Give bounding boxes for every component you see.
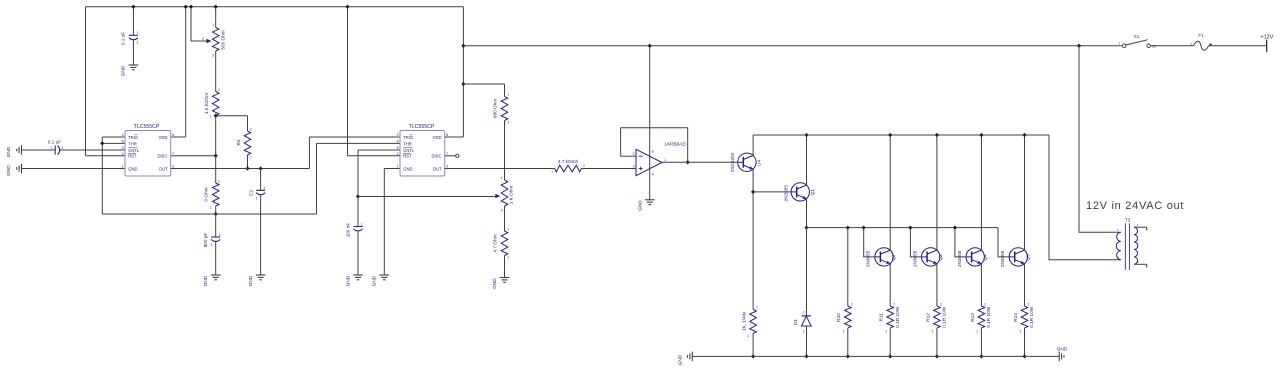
- svg-text:F1: F1: [1198, 33, 1204, 39]
- resistor R14 0.1R 10W: [1021, 306, 1028, 328]
- svg-text:GND: GND: [6, 146, 11, 157]
- svg-text:GND: GND: [678, 354, 683, 365]
- wire Q3 emitter fall: [936, 264, 938, 307]
- node Q5 collector on rail: [1022, 133, 1026, 137]
- pin tick secondary bottom: [1146, 264, 1148, 267]
- svg-text:2: 2: [62, 146, 64, 150]
- ground U1 GND pin: [21, 164, 23, 174]
- svg-text:DISC: DISC: [431, 154, 441, 159]
- capacitor 800 pF: [211, 236, 220, 238]
- pot wiper arrow: [207, 39, 212, 44]
- svg-text:1: 1: [397, 165, 399, 169]
- svg-text:3: 3: [212, 54, 214, 58]
- svg-text:2: 2: [508, 121, 510, 125]
- resistor R4: [244, 131, 251, 155]
- transformer T2 primary winding: [1116, 232, 1121, 259]
- svg-text:2: 2: [984, 303, 986, 307]
- capacitor 100 nF: [354, 226, 363, 228]
- svg-text:1: 1: [250, 156, 252, 160]
- wire base hook Q3: [910, 228, 921, 257]
- svg-text:1: 1: [976, 330, 978, 334]
- svg-text:1: 1: [137, 31, 139, 35]
- svg-text:2: 2: [137, 41, 139, 45]
- wire DISC to 0 Ohm: [215, 156, 217, 183]
- op-amp 555 timer U1 TLC555CP: [125, 131, 171, 177]
- wire primary bottom feed: [1049, 135, 1121, 260]
- capacitor C2: [256, 189, 265, 191]
- svg-text:1 K Ohm: 1 K Ohm: [509, 186, 514, 205]
- wire feedback - input: [621, 155, 636, 157]
- svg-text:2: 2: [264, 186, 266, 190]
- svg-text:0.1R 10W: 0.1R 10W: [986, 306, 991, 327]
- wire OUT U1 riser to TRIG U2: [308, 137, 310, 169]
- svg-text:2N3055: 2N3055: [957, 250, 962, 267]
- wire OUT U2: [445, 168, 555, 170]
- wire R10 bottom lead: [847, 328, 849, 356]
- svg-text:2: 2: [756, 306, 758, 310]
- wire 100nF lead: [357, 197, 359, 227]
- svg-text:2N3055: 2N3055: [1000, 250, 1005, 267]
- wire GND U2 riser: [383, 169, 385, 276]
- svg-text:680 Ohm: 680 Ohm: [493, 99, 498, 118]
- wire VDD U2: [445, 136, 464, 138]
- svg-text:1: 1: [1190, 42, 1192, 46]
- wire Q1 collector riser: [806, 135, 808, 185]
- wire node to 800pF: [215, 214, 217, 237]
- svg-text:GND: GND: [346, 275, 351, 286]
- svg-text:1: 1: [1119, 42, 1121, 46]
- svg-text:+12V: +12V: [1260, 34, 1273, 40]
- wire OUT U1: [171, 168, 310, 170]
- svg-text:R4: R4: [236, 139, 241, 145]
- pin tick secondary top: [1146, 227, 1148, 230]
- wire 680 to pot: [504, 121, 506, 181]
- svg-text:2: 2: [218, 88, 220, 92]
- wire to op-amp + input: [582, 168, 637, 170]
- svg-text:2: 2: [202, 37, 204, 41]
- diode D1: [802, 315, 811, 317]
- svg-text:2: 2: [633, 152, 635, 156]
- wire THR U2: [317, 142, 401, 144]
- svg-text:3: 3: [501, 209, 503, 213]
- wire timing rail: [102, 213, 316, 215]
- node Q1 base junction: [751, 190, 755, 194]
- svg-text:2: 2: [219, 233, 221, 237]
- wire pot to 1.5K: [215, 51, 217, 92]
- node R13 bottom: [979, 354, 983, 358]
- svg-text:2N3055: 2N3055: [912, 250, 917, 267]
- wire secondary top lead: [1134, 226, 1147, 228]
- resistor 680 Ohm: [501, 96, 508, 120]
- transistor Q2 2N3055: [875, 248, 893, 266]
- node THR junction: [100, 141, 104, 145]
- wire left outline down to RST U1: [85, 7, 87, 156]
- op-amp 555 timer U2 TLC555CP: [400, 131, 445, 177]
- wire feedback right riser: [687, 128, 689, 163]
- svg-text:U4: U4: [757, 160, 762, 166]
- resistor 1K 1/4W: [750, 309, 757, 333]
- svg-text:6: 6: [122, 140, 124, 144]
- svg-text:TLC555CP: TLC555CP: [409, 124, 435, 130]
- svg-text:1: 1: [50, 146, 52, 150]
- ground op-amp: [645, 199, 655, 201]
- wire feedback top: [621, 127, 688, 129]
- node Q2 collector on rail: [888, 133, 892, 137]
- wire 680 branch: [463, 83, 504, 85]
- transformer T2 core: [1124, 223, 1126, 270]
- svg-text:2: 2: [583, 164, 585, 168]
- node R10 bottom: [846, 354, 850, 358]
- wire base hook Q2: [864, 228, 875, 257]
- svg-text:Q2: Q2: [891, 254, 896, 261]
- svg-text:2N3055: 2N3055: [866, 250, 871, 267]
- resistor R10: [845, 306, 852, 328]
- svg-text:2: 2: [508, 256, 510, 260]
- svg-text:R14: R14: [1013, 313, 1018, 322]
- wire F1 to +12V: [1209, 45, 1267, 47]
- svg-text:0.1 uF: 0.1 uF: [48, 139, 61, 144]
- svg-text:2: 2: [1028, 303, 1030, 307]
- wire VDD riser U1: [185, 7, 187, 137]
- wire Q2 emitter fall: [889, 264, 891, 307]
- transistor Q4 2N3055: [966, 248, 984, 266]
- svg-text:GND: GND: [248, 275, 253, 286]
- svg-text:1: 1: [1020, 330, 1022, 334]
- svg-text:RST: RST: [403, 154, 412, 159]
- svg-text:1: 1: [508, 93, 510, 97]
- wire D1 bottom lead: [806, 326, 808, 356]
- wire TRIG riser: [101, 137, 103, 214]
- transistor Q5 2N3055: [1009, 248, 1027, 266]
- wire pot top lead: [215, 7, 217, 28]
- svg-text:OUT: OUT: [433, 166, 442, 171]
- wire RST U2: [348, 155, 401, 157]
- wire Q1 base: [753, 191, 791, 193]
- svg-text:DISC: DISC: [157, 154, 167, 159]
- svg-text:GND: GND: [492, 278, 497, 289]
- wire main +12V rail: [463, 45, 1121, 47]
- switch S1: [1122, 44, 1126, 48]
- resistor 4.7 Ohm: [501, 231, 508, 256]
- svg-text:3: 3: [633, 164, 635, 168]
- svg-text:1K, 1/4W: 1K, 1/4W: [742, 311, 747, 331]
- svg-text:1: 1: [747, 334, 749, 338]
- svg-text:2: 2: [893, 303, 895, 307]
- wire Q4 collector riser: [980, 135, 982, 250]
- svg-text:6: 6: [397, 140, 399, 144]
- node vdd riser on rail: [184, 5, 188, 9]
- svg-text:2: 2: [851, 303, 853, 307]
- wire 1.5K down to DISC: [215, 116, 217, 156]
- svg-text:1: 1: [551, 170, 553, 174]
- svg-text:1: 1: [932, 330, 934, 334]
- node top cap on rail: [131, 5, 135, 9]
- svg-text:1: 1: [501, 176, 503, 180]
- svg-text:T2: T2: [1125, 218, 1131, 223]
- svg-text:0.1R 10W: 0.1R 10W: [895, 306, 900, 327]
- resistor R11 0.1R 10W: [887, 306, 894, 328]
- svg-text:2: 2: [122, 133, 124, 137]
- svg-text:5: 5: [122, 146, 124, 150]
- wire R13 to bottom rail: [980, 328, 982, 356]
- resistor R12 0.1R 10W: [934, 306, 941, 328]
- wire lead 0.1uF top cap: [132, 7, 134, 36]
- svg-text:TRIG: TRIG: [128, 135, 138, 140]
- ground CNTL cap: [21, 145, 23, 155]
- wire U4 emitter fall: [752, 169, 754, 309]
- svg-text:1: 1: [803, 330, 805, 334]
- wire DISC U1: [171, 155, 216, 157]
- svg-text:THR: THR: [403, 141, 412, 146]
- ground bottom rail left: [691, 352, 693, 362]
- svg-text:500 Ohm: 500 Ohm: [221, 30, 226, 49]
- wire GND U2: [384, 168, 400, 170]
- svg-text:GND: GND: [403, 166, 412, 171]
- node 1K bottom: [751, 354, 755, 358]
- resistor R13 0.1R 10W: [978, 306, 985, 328]
- resistor 4.7 kOmh: [555, 165, 582, 172]
- ground 4.7 Ohm: [500, 277, 510, 279]
- svg-text:VDD: VDD: [159, 135, 168, 140]
- wire 0.1uF cap to ground: [132, 41, 134, 66]
- node Q1 collector on rail: [804, 133, 808, 137]
- node Q1 emitter/base rail: [804, 225, 808, 229]
- wire Q4 emitter fall: [980, 264, 982, 307]
- svg-text:1: 1: [122, 165, 124, 169]
- wire CNTL U1: [60, 149, 125, 151]
- node R4-OUT junction: [245, 166, 249, 170]
- wire 680 top lead: [504, 84, 506, 96]
- svg-text:1: 1: [210, 115, 212, 119]
- ground bottom rail right: [1058, 352, 1060, 362]
- wire U4 collector riser: [752, 135, 754, 156]
- wire S1 to F1: [1151, 45, 1194, 47]
- svg-text:0.1 uF: 0.1 uF: [121, 32, 126, 45]
- svg-text:GND: GND: [638, 200, 643, 211]
- svg-text:0 Ohm: 0 Ohm: [204, 187, 209, 201]
- node transformer primary top tap: [1077, 44, 1081, 48]
- svg-text:0.1R 10W: 0.1R 10W: [942, 306, 947, 327]
- wire 0 Ohm to node rail: [215, 206, 217, 214]
- svg-text:12V in 24VAC out: 12V in 24VAC out: [1086, 200, 1184, 212]
- wire GND pin U1: [22, 168, 126, 170]
- wire R4 top lead: [247, 116, 249, 131]
- wire R11 to bottom rail: [889, 328, 891, 356]
- svg-text:GND: GND: [1057, 347, 1068, 352]
- svg-text:GND: GND: [128, 166, 137, 171]
- svg-text:1: 1: [843, 330, 845, 334]
- wire base hook Q5: [998, 228, 1009, 257]
- svg-text:GND: GND: [203, 275, 208, 286]
- wire VDD U1: [171, 136, 186, 138]
- svg-text:2SC5200: 2SC5200: [730, 152, 735, 172]
- ground U2: [380, 274, 390, 276]
- transformer T2 secondary winding: [1134, 227, 1138, 264]
- svg-text:4.7 Ohm: 4.7 Ohm: [493, 234, 498, 252]
- wire collector rail: [753, 134, 1049, 136]
- svg-text:Q3: Q3: [938, 254, 943, 261]
- wire CNTL U2: [358, 149, 400, 151]
- capacitor C 0.1uF (top): [129, 34, 138, 36]
- node DISC junction: [214, 154, 218, 158]
- svg-text:0.1R 10W: 0.1R 10W: [1029, 306, 1034, 327]
- svg-text:OUT: OUT: [159, 166, 168, 171]
- svg-text:1: 1: [361, 223, 363, 227]
- svg-text:8: 8: [172, 133, 174, 137]
- svg-text:1: 1: [210, 206, 212, 210]
- wire op-amp output: [662, 161, 738, 163]
- wire D1 top lead: [806, 228, 808, 316]
- ground top cap: [129, 64, 139, 66]
- node wiper riser on rail: [189, 5, 193, 9]
- svg-text:2: 2: [250, 128, 252, 132]
- wire RST U1: [86, 155, 126, 157]
- transistor Q3 2N3055: [922, 248, 940, 266]
- capacitor 0.1 uF (CNTL): [54, 146, 56, 155]
- ground 100nF: [353, 274, 363, 276]
- potentiometer 500 Ohm: [212, 28, 219, 52]
- svg-text:800 pF: 800 pF: [203, 233, 208, 248]
- node main rail tap: [461, 44, 465, 48]
- node R11 bottom: [888, 354, 892, 358]
- wire TRIG U2: [309, 136, 400, 138]
- svg-text:TRIG: TRIG: [403, 135, 413, 140]
- svg-text:1: 1: [665, 158, 667, 162]
- svg-text:Q4: Q4: [982, 254, 987, 261]
- svg-text:R11: R11: [879, 313, 884, 322]
- svg-text:R12: R12: [925, 313, 930, 322]
- node pot on rail: [214, 5, 218, 9]
- wire THR U2 riser: [316, 143, 318, 214]
- op-amp U3 LM358AD: [636, 149, 662, 175]
- svg-text:RST: RST: [128, 154, 137, 159]
- potentiometer 1 K Ohm: [501, 180, 508, 206]
- wire bottom ground rail: [692, 355, 1059, 357]
- svg-text:1: 1: [256, 196, 258, 200]
- wire top-left rail: [86, 6, 464, 8]
- node RST riser on rail: [345, 5, 349, 9]
- wire base rail: [807, 227, 999, 229]
- wire R4 bottom lead: [247, 155, 249, 169]
- svg-text:GND: GND: [121, 65, 126, 76]
- wire R14 to bottom rail: [1024, 328, 1026, 356]
- svg-text:1: 1: [508, 228, 510, 232]
- wire DISC U2 stub: [445, 155, 456, 157]
- wire 100nF to ground: [357, 232, 359, 275]
- node base hook Q2: [862, 225, 866, 229]
- node 1.5K/R4 branch: [214, 114, 218, 118]
- wire 800pF to ground: [215, 242, 217, 275]
- svg-text:2: 2: [218, 180, 220, 184]
- wire TRIG U1: [102, 136, 125, 138]
- wire wiper up to rail: [190, 7, 192, 41]
- svg-text:R13: R13: [970, 313, 975, 322]
- svg-text:4: 4: [652, 173, 654, 177]
- svg-text:1: 1: [885, 330, 887, 334]
- svg-text:TLC555CP: TLC555CP: [134, 124, 160, 130]
- node Q4 collector on rail: [979, 133, 983, 137]
- wire RST U2 riser: [347, 7, 349, 156]
- wire 4.7 Ohm to ground: [504, 256, 506, 278]
- wire cntl cap to ground: [22, 149, 56, 151]
- svg-text:D1: D1: [793, 319, 798, 325]
- node R10 top: [846, 225, 850, 229]
- node timing node: [214, 212, 218, 216]
- resistor 1.5 KOhm: [212, 92, 219, 116]
- node base hook Q3: [908, 225, 912, 229]
- transistor U4 2SC5200: [738, 153, 756, 171]
- power +12V terminal: [1266, 40, 1268, 53]
- svg-text:1.5 KOhm: 1.5 KOhm: [204, 93, 209, 114]
- resistor 0 Ohm: [212, 183, 219, 206]
- svg-text:1: 1: [212, 23, 214, 27]
- svg-text:1: 1: [211, 243, 213, 247]
- svg-text:R10: R10: [836, 313, 841, 322]
- wire THR U1: [102, 142, 125, 144]
- node opamp power tap: [648, 44, 652, 48]
- svg-text:7: 7: [172, 152, 174, 156]
- wire Q2 collector riser: [889, 135, 891, 250]
- wire Q3 collector riser: [936, 135, 938, 250]
- node CNTL/wiper junction: [356, 194, 360, 198]
- op-amp plus sign: [639, 168, 643, 170]
- svg-text:CNTL: CNTL: [403, 148, 415, 153]
- wire C2 to ground: [260, 196, 262, 276]
- node Q3 collector on rail: [935, 133, 939, 137]
- wire 1.5K to R4 branch: [216, 115, 248, 117]
- svg-text:8: 8: [652, 150, 654, 154]
- svg-text:VDD: VDD: [433, 135, 442, 140]
- svg-text:CNTL: CNTL: [128, 148, 140, 153]
- wire Q5 emitter fall: [1024, 264, 1026, 307]
- fuse F1: [1194, 41, 1209, 50]
- svg-text:2N3055: 2N3055: [784, 185, 789, 202]
- svg-text:LM358AD: LM358AD: [665, 142, 687, 148]
- node C2 junction: [258, 166, 262, 170]
- ground 800pF: [211, 274, 221, 276]
- no-connect DISC U2: [456, 154, 459, 157]
- svg-text:4.7 kOmh: 4.7 kOmh: [558, 159, 579, 164]
- pin 2 F1: [1209, 44, 1211, 46]
- op-amp minus sign: [639, 155, 643, 157]
- wire VDD riser: [462, 7, 464, 137]
- wire 1K to bottom rail: [752, 334, 754, 357]
- wire op-amp power rail to ground: [649, 46, 651, 200]
- wire CNTL U2 riser: [357, 150, 359, 197]
- wire C2 top lead: [260, 169, 262, 191]
- node R14 bottom: [1022, 354, 1026, 358]
- svg-text:Q1: Q1: [810, 189, 815, 196]
- wire Q5 collector riser: [1024, 135, 1026, 250]
- svg-text:4: 4: [397, 152, 399, 156]
- node D1 bottom: [804, 354, 808, 358]
- svg-text:2: 2: [940, 303, 942, 307]
- svg-text:4: 4: [122, 152, 124, 156]
- node 680 tap: [461, 82, 465, 86]
- wire Q1 emitter fall: [806, 199, 808, 228]
- svg-text:100 nF: 100 nF: [346, 223, 351, 238]
- wire pot wiper: [191, 40, 207, 42]
- transistor Q1 2N3055: [791, 183, 809, 201]
- svg-text:5: 5: [397, 146, 399, 150]
- svg-text:GND: GND: [372, 275, 377, 286]
- wire primary top feed: [1079, 46, 1121, 233]
- ground C2: [256, 274, 266, 276]
- svg-text:S1: S1: [1134, 34, 1140, 40]
- wire R12 to bottom rail: [936, 328, 938, 356]
- svg-text:THR: THR: [128, 141, 137, 146]
- wire base hook Q4: [955, 228, 966, 257]
